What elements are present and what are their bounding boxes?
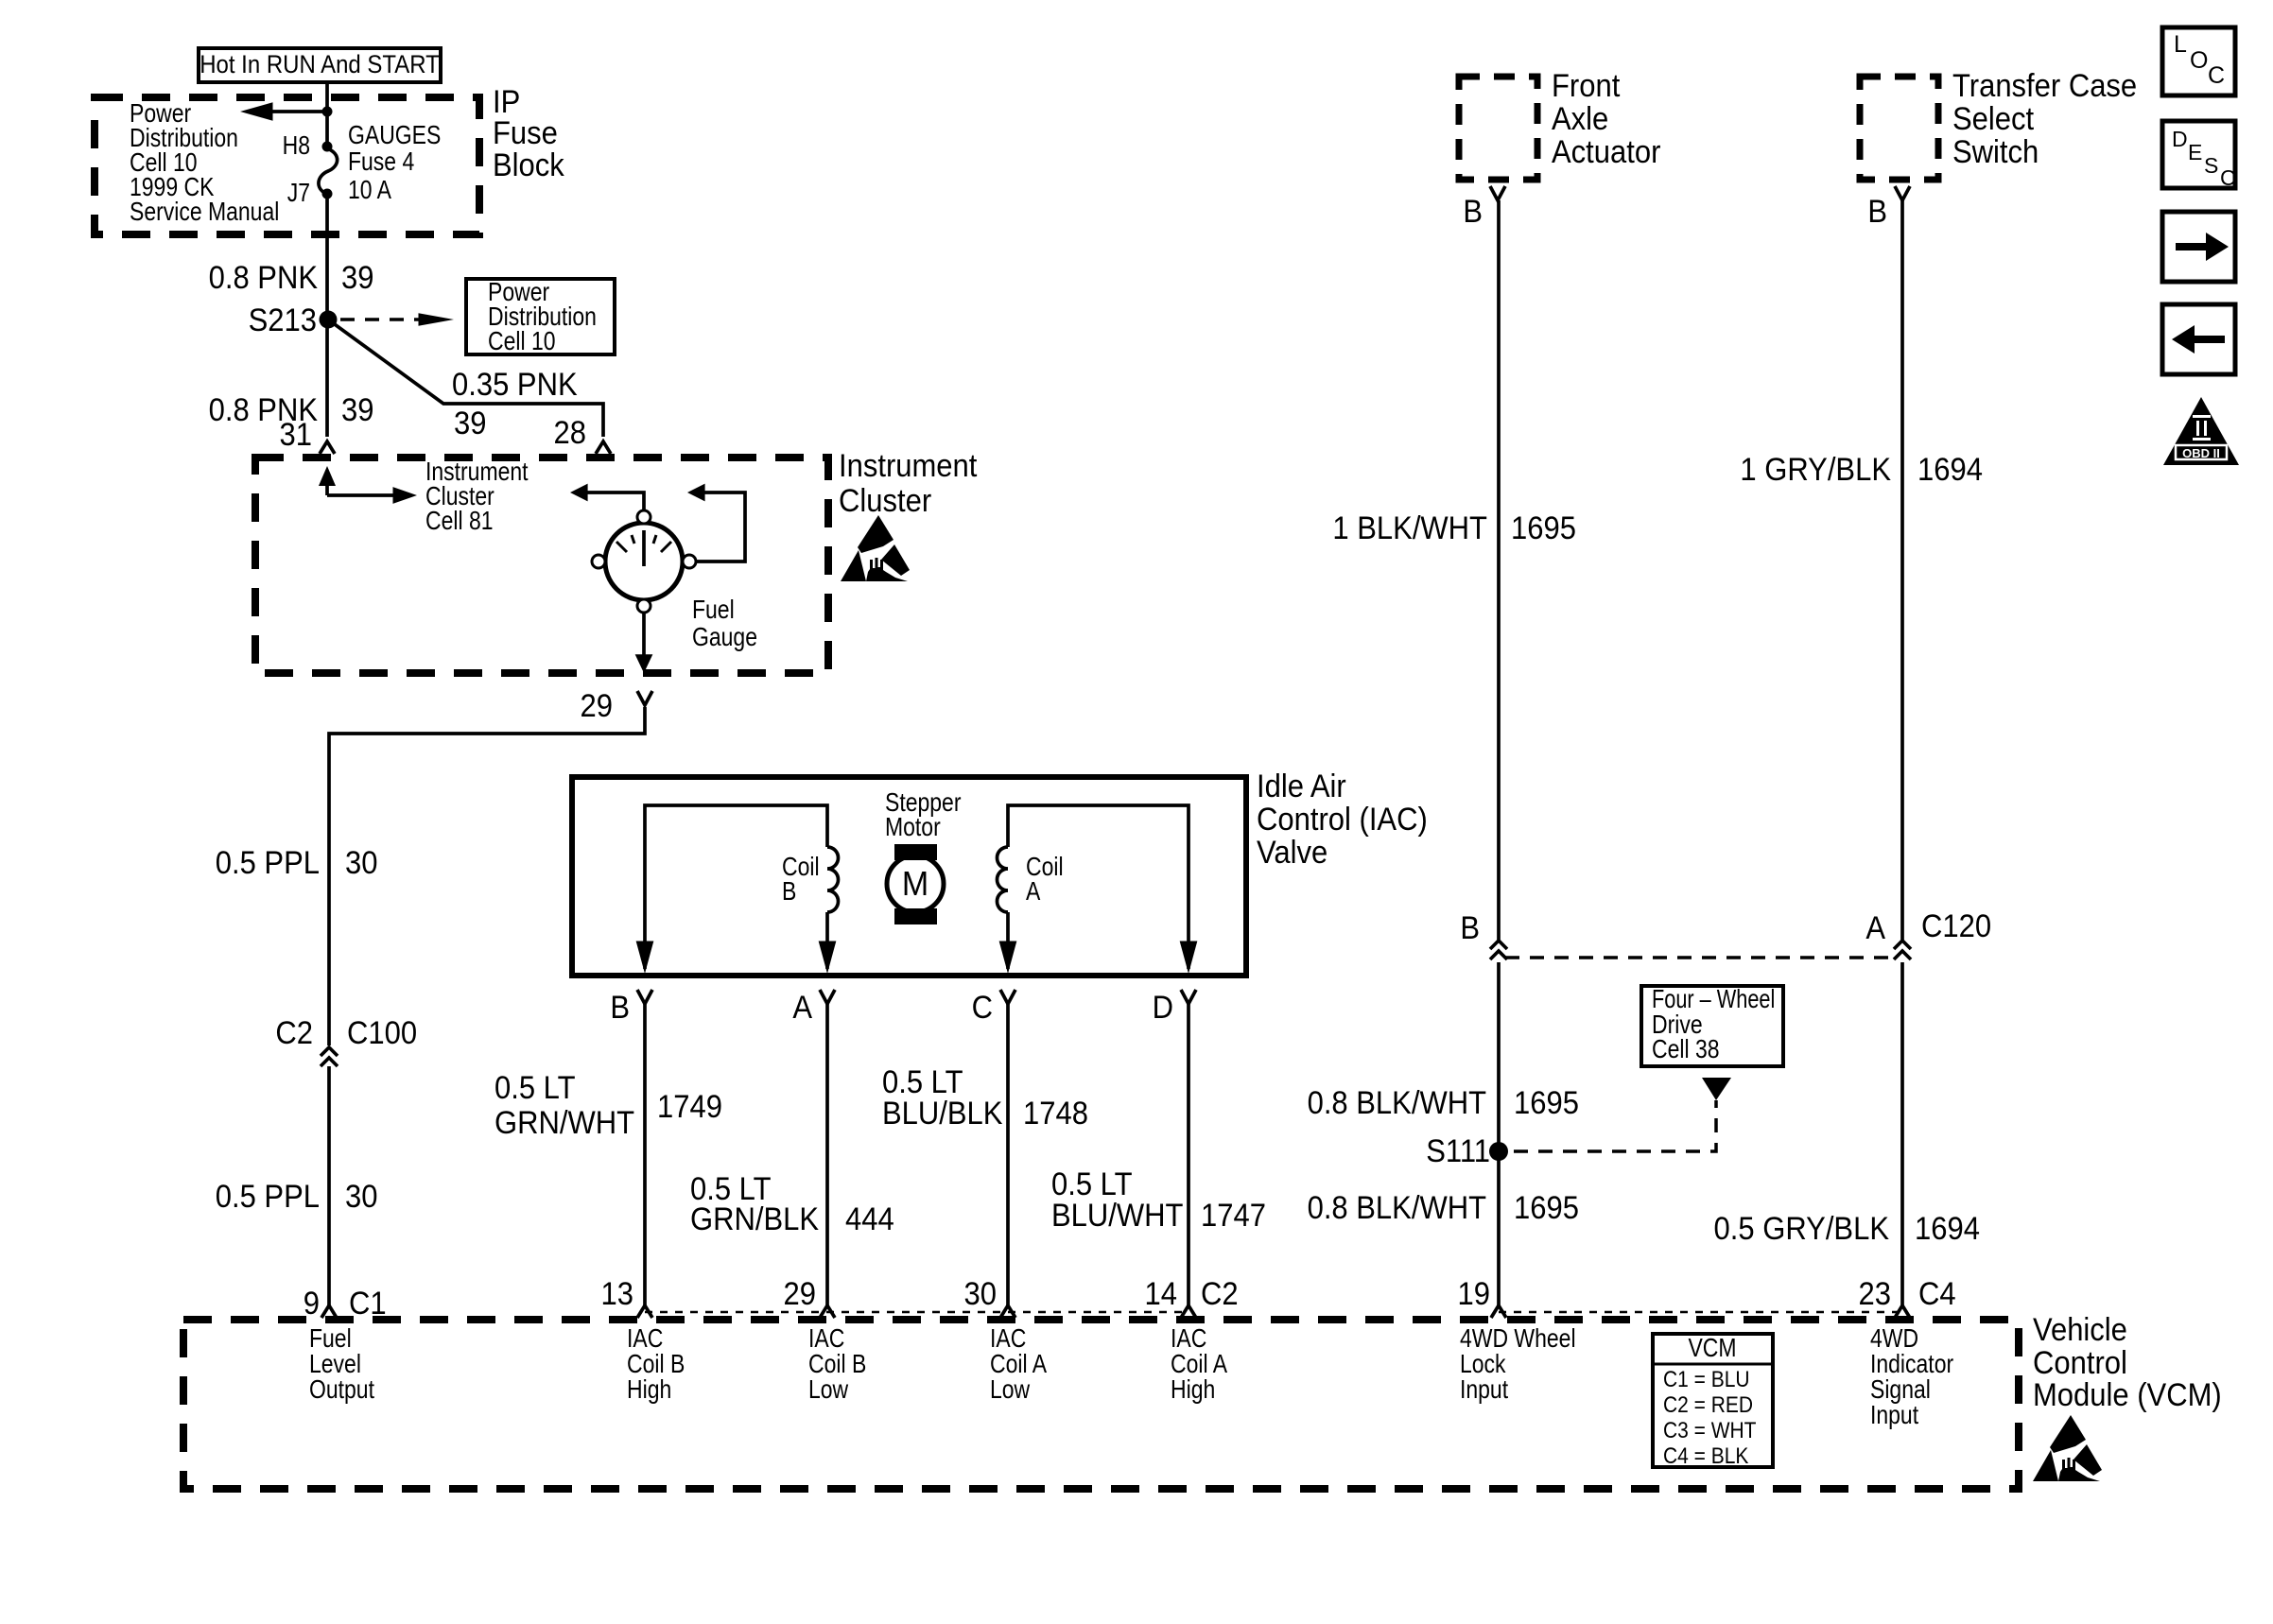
svg-text:39: 39 (454, 406, 486, 441)
svg-text:19: 19 (1458, 1276, 1490, 1312)
svg-text:Low: Low (990, 1375, 1031, 1404)
svg-text:D: D (2172, 127, 2188, 151)
svg-text:Low: Low (808, 1375, 849, 1404)
svg-text:IP: IP (493, 84, 520, 120)
svg-text:GRN/WHT: GRN/WHT (495, 1105, 634, 1141)
svg-text:Motor: Motor (885, 813, 941, 841)
svg-text:C4 = BLK: C4 = BLK (1663, 1442, 1748, 1468)
svg-text:Cell 10: Cell 10 (488, 327, 556, 355)
svg-text:Fuse 4: Fuse 4 (348, 147, 414, 176)
svg-text:Input: Input (1870, 1401, 1918, 1429)
svg-text:A: A (1865, 910, 1885, 946)
svg-text:C2: C2 (1201, 1276, 1239, 1312)
svg-text:IAC: IAC (808, 1324, 844, 1353)
svg-text:B: B (610, 990, 630, 1026)
svg-text:C2 = RED: C2 = RED (1663, 1391, 1753, 1417)
svg-text:Control: Control (2033, 1345, 2127, 1381)
svg-text:1 GRY/BLK: 1 GRY/BLK (1740, 452, 1891, 488)
svg-text:Hot In RUN And START: Hot In RUN And START (200, 51, 440, 78)
svg-text:IAC: IAC (1171, 1324, 1206, 1353)
svg-text:B: B (1460, 910, 1480, 946)
svg-text:0.8 BLK/WHT: 0.8 BLK/WHT (1308, 1190, 1487, 1226)
svg-text:0.5 LT: 0.5 LT (1051, 1166, 1133, 1202)
svg-text:C1: C1 (349, 1286, 387, 1322)
svg-text:13: 13 (601, 1276, 633, 1312)
svg-text:High: High (1171, 1375, 1215, 1404)
svg-text:1747: 1747 (1201, 1198, 1266, 1234)
svg-text:4WD Wheel: 4WD Wheel (1460, 1324, 1576, 1353)
svg-text:10 A: 10 A (348, 176, 391, 204)
svg-text:0.35 PNK: 0.35 PNK (452, 367, 578, 403)
svg-text:Actuator: Actuator (1552, 134, 1661, 170)
svg-text:GAUGES: GAUGES (348, 121, 441, 149)
svg-text:1749: 1749 (657, 1089, 722, 1125)
svg-text:S111: S111 (1426, 1133, 1490, 1169)
svg-text:C: C (2208, 62, 2225, 89)
svg-text:0.5 LT: 0.5 LT (882, 1064, 963, 1100)
svg-text:S213: S213 (249, 302, 317, 338)
svg-text:1695: 1695 (1514, 1085, 1579, 1121)
svg-text:BLU/WHT: BLU/WHT (1051, 1198, 1184, 1234)
svg-text:E: E (2188, 140, 2202, 164)
svg-text:Gauge: Gauge (692, 623, 757, 651)
svg-text:Instrument: Instrument (839, 448, 977, 484)
svg-text:Coil A: Coil A (990, 1350, 1047, 1378)
svg-text:M: M (902, 865, 928, 903)
svg-text:444: 444 (845, 1201, 894, 1237)
svg-text:Service Manual: Service Manual (130, 198, 279, 226)
svg-text:Transfer Case: Transfer Case (1952, 68, 2137, 104)
svg-text:30: 30 (964, 1276, 997, 1312)
svg-text:BLU/BLK: BLU/BLK (882, 1096, 1003, 1132)
svg-text:Fuel: Fuel (309, 1324, 352, 1353)
svg-text:OBD II: OBD II (2182, 446, 2220, 460)
svg-text:High: High (627, 1375, 671, 1404)
svg-text:Front: Front (1552, 68, 1620, 104)
svg-text:Output: Output (309, 1375, 374, 1404)
svg-text:C100: C100 (347, 1015, 417, 1051)
svg-text:39: 39 (341, 392, 373, 428)
svg-text:0.5 LT: 0.5 LT (495, 1070, 576, 1106)
svg-text:H8: H8 (283, 131, 310, 160)
svg-text:29: 29 (784, 1276, 816, 1312)
svg-text:Input: Input (1460, 1375, 1508, 1404)
svg-text:23: 23 (1859, 1276, 1891, 1312)
svg-text:1695: 1695 (1514, 1190, 1579, 1226)
svg-text:1748: 1748 (1023, 1096, 1088, 1132)
svg-text:1694: 1694 (1917, 452, 1983, 488)
svg-text:14: 14 (1145, 1276, 1177, 1312)
svg-text:O: O (2190, 47, 2208, 74)
svg-text:9: 9 (304, 1286, 320, 1322)
svg-text:IAC: IAC (990, 1324, 1026, 1353)
svg-text:Cluster: Cluster (839, 483, 931, 519)
svg-text:4WD: 4WD (1870, 1324, 1918, 1353)
svg-text:28: 28 (554, 415, 586, 451)
svg-text:1694: 1694 (1915, 1211, 1980, 1247)
svg-text:C: C (972, 990, 993, 1026)
svg-text:Control (IAC): Control (IAC) (1257, 802, 1428, 838)
svg-text:0.8 PNK: 0.8 PNK (209, 260, 319, 296)
svg-text:IAC: IAC (627, 1324, 663, 1353)
svg-text:Module (VCM): Module (VCM) (2033, 1377, 2222, 1413)
svg-text:39: 39 (341, 260, 373, 296)
svg-text:GRN/BLK: GRN/BLK (690, 1201, 819, 1237)
svg-text:Level: Level (309, 1350, 361, 1378)
svg-text:Fuse: Fuse (493, 115, 558, 151)
svg-text:C1 = BLU: C1 = BLU (1663, 1365, 1750, 1391)
svg-text:A: A (1026, 877, 1040, 906)
svg-text:0.5 GRY/BLK: 0.5 GRY/BLK (1714, 1211, 1890, 1247)
svg-text:C: C (2220, 165, 2236, 190)
svg-text:Coil A: Coil A (1171, 1350, 1227, 1378)
svg-text:A: A (792, 990, 812, 1026)
svg-text:Select: Select (1952, 101, 2034, 137)
svg-text:Idle Air: Idle Air (1257, 769, 1346, 804)
svg-text:1 BLK/WHT: 1 BLK/WHT (1332, 510, 1487, 546)
svg-text:Coil B: Coil B (627, 1350, 685, 1378)
svg-text:Fuel: Fuel (692, 596, 735, 624)
svg-text:Valve: Valve (1257, 835, 1327, 871)
svg-text:1695: 1695 (1511, 510, 1576, 546)
svg-text:30: 30 (345, 1179, 377, 1215)
svg-text:29: 29 (581, 688, 613, 724)
svg-text:C3 = WHT: C3 = WHT (1663, 1416, 1757, 1443)
svg-text:Cell 38: Cell 38 (1652, 1035, 1720, 1063)
svg-text:30: 30 (345, 845, 377, 881)
svg-text:Indicator: Indicator (1870, 1350, 1954, 1378)
svg-text:0.8 BLK/WHT: 0.8 BLK/WHT (1308, 1085, 1487, 1121)
svg-text:0.5 PPL: 0.5 PPL (216, 845, 320, 881)
svg-text:Block: Block (493, 147, 564, 183)
svg-text:Lock: Lock (1460, 1350, 1506, 1378)
svg-text:L: L (2174, 31, 2187, 58)
svg-text:Vehicle: Vehicle (2033, 1312, 2127, 1348)
svg-text:J7: J7 (287, 179, 310, 207)
svg-text:0.5 PPL: 0.5 PPL (216, 1179, 320, 1215)
svg-text:Signal: Signal (1870, 1375, 1931, 1404)
svg-text:B: B (1463, 194, 1483, 230)
svg-text:S: S (2204, 153, 2218, 178)
svg-text:C120: C120 (1921, 908, 1991, 944)
svg-text:VCM: VCM (1688, 1334, 1736, 1362)
svg-text:Cell 81: Cell 81 (425, 507, 494, 535)
svg-text:B: B (782, 877, 796, 906)
svg-text:Switch: Switch (1952, 134, 2039, 170)
svg-text:B: B (1867, 194, 1887, 230)
svg-text:Coil B: Coil B (808, 1350, 866, 1378)
svg-text:Axle: Axle (1552, 101, 1608, 137)
svg-text:D: D (1153, 990, 1173, 1026)
svg-text:C4: C4 (1918, 1276, 1956, 1312)
svg-text:31: 31 (280, 417, 312, 453)
svg-text:C2: C2 (275, 1015, 313, 1051)
